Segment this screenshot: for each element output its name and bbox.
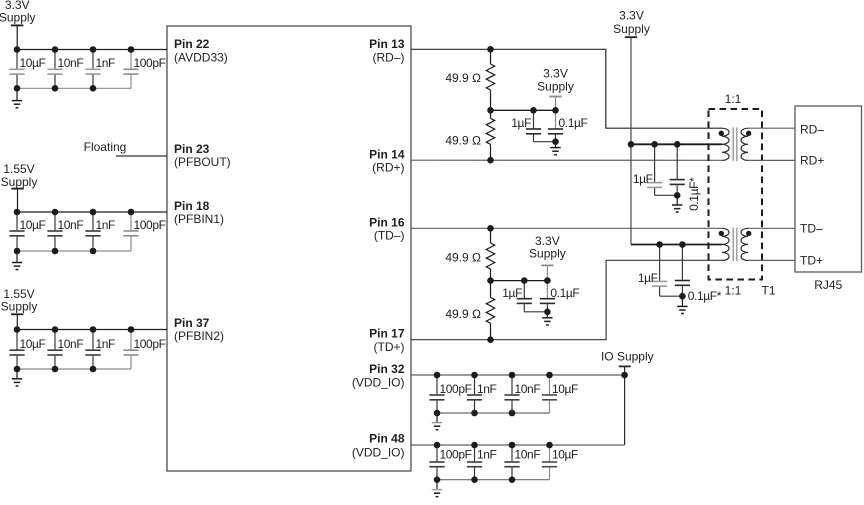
wire 1.55V supply rail to Pin 37	[17, 329, 167, 331]
connector RJ45	[795, 106, 862, 272]
wire Pin 13 (RD-) to transformer primary top	[411, 49, 722, 128]
junction dots on Pin 22 ground bus	[14, 85, 21, 92]
capacitor 100pF (Pin 48 bank)	[436, 445, 438, 461]
IC block U1 (PHY)	[167, 26, 411, 471]
capacitor 100pF (Pin 32 bank)	[436, 375, 438, 394]
svg-text:Pin 14: Pin 14	[369, 147, 405, 161]
capacitor 1nF (Pin 32 bank)	[474, 375, 476, 394]
wire 1.55V ground bus (Pin 18 bank)	[17, 250, 131, 252]
junction node Pin16/R3	[487, 225, 494, 232]
polarity dot RD primary	[719, 131, 724, 136]
svg-text:(RD+): (RD+)	[372, 161, 404, 175]
junction node R2/Pin14	[487, 157, 494, 164]
ground (Pin 22 bank)	[16, 88, 18, 100]
svg-text:100pF: 100pF	[134, 337, 166, 351]
junction node Pin13/R1	[487, 46, 494, 53]
capacitor 1uF (RD center tap)	[654, 144, 656, 182]
svg-text:Pin 13: Pin 13	[369, 37, 405, 51]
junction dots on Pin 48 supply rail	[434, 442, 441, 449]
wire VDD_IO ground bus (Pin 32 bank)	[437, 412, 550, 414]
svg-text:(PFBIN2): (PFBIN2)	[174, 329, 224, 343]
junction dots on Pin 37 ground bus	[14, 366, 21, 373]
resistor R4 49.9 ohm (TD)	[490, 281, 492, 298]
capacitor 1uF (TD center tap)	[659, 245, 661, 281]
svg-text:10µF: 10µF	[20, 218, 46, 232]
svg-text:Pin 17: Pin 17	[369, 326, 405, 340]
svg-text:(VDD_IO): (VDD_IO)	[352, 445, 405, 459]
capacitor 10&#181;F (Pin 18 bank)	[16, 212, 18, 230]
svg-text:IO Supply: IO Supply	[601, 350, 654, 364]
junction dots on Pin 32 ground bus	[434, 410, 441, 417]
wire TD termination center tap	[491, 280, 548, 282]
svg-text:10µF: 10µF	[552, 448, 578, 462]
svg-text:49.9 Ω: 49.9 Ω	[445, 134, 481, 148]
svg-text:RD+: RD+	[800, 154, 824, 168]
svg-text:10nF: 10nF	[515, 382, 541, 396]
ground (Pin 32 bank)	[436, 413, 438, 423]
svg-text:TD+: TD+	[800, 254, 823, 268]
svg-text:1:1: 1:1	[725, 92, 742, 106]
capacitor 100pF (Pin 37 bank)	[130, 330, 132, 350]
capacitor 1nF (Pin 22 bank)	[92, 50, 94, 69]
capacitor 10&#181;F (Pin 22 bank)	[16, 50, 18, 69]
svg-text:0.1µF: 0.1µF	[559, 116, 588, 130]
capacitor 10nF (Pin 22 bank)	[54, 50, 56, 69]
svg-text:3.3V: 3.3V	[619, 9, 644, 23]
wire TD+ secondary to RJ45	[748, 259, 795, 261]
svg-text:100pF: 100pF	[134, 56, 166, 70]
ground (TD center tap)	[681, 296, 683, 306]
transformer RD primary winding	[722, 128, 729, 160]
svg-text:10nF: 10nF	[58, 337, 84, 351]
svg-text:10µF: 10µF	[20, 337, 46, 351]
svg-text:1µF: 1µF	[633, 172, 653, 186]
svg-text:100pF: 100pF	[440, 448, 472, 462]
svg-text:10µF: 10µF	[20, 56, 46, 70]
wire 1.55V supply rail to Pin 18	[17, 211, 167, 213]
capacitor 100pF (Pin 22 bank)	[130, 50, 132, 69]
junction node 3.3V/RD center tap	[628, 141, 635, 148]
ground (Pin 18 bank)	[16, 251, 18, 263]
svg-text:Supply: Supply	[0, 11, 36, 25]
svg-text:Pin 18: Pin 18	[174, 199, 210, 213]
svg-text:1:1: 1:1	[725, 284, 742, 298]
junction dots TD center tap	[656, 241, 663, 248]
capacitor 10nF (Pin 48 bank)	[511, 445, 513, 461]
svg-text:Pin 37: Pin 37	[174, 316, 210, 330]
svg-text:10µF: 10µF	[552, 382, 578, 396]
svg-text:Supply: Supply	[613, 22, 650, 36]
svg-text:1nF: 1nF	[96, 218, 116, 232]
svg-text:1nF: 1nF	[96, 56, 116, 70]
svg-text:Supply: Supply	[529, 247, 566, 261]
svg-text:1µF: 1µF	[638, 271, 658, 285]
svg-text:1nF: 1nF	[96, 337, 116, 351]
wire Pin 32 (VDD_IO) to IO Supply	[411, 374, 625, 376]
junction dots on Pin 48 ground bus	[434, 476, 441, 483]
resistor R2 49.9 ohm (RD)	[490, 110, 492, 118]
svg-text:0.1µF*: 0.1µF*	[688, 289, 722, 303]
transformer RD secondary winding	[741, 128, 748, 160]
svg-text:Pin 22: Pin 22	[174, 37, 210, 51]
wire IO Supply vertical	[624, 366, 626, 445]
junction dots on Pin 32 supply rail	[434, 372, 441, 379]
resistor R1 49.9 ohm (RD)	[490, 49, 492, 64]
capacitor 10&#181;F (Pin 37 bank)	[16, 330, 18, 350]
svg-text:(PFBOUT): (PFBOUT)	[174, 155, 231, 169]
wire Pin 16 (TD-) to transformer primary top	[411, 227, 722, 229]
junction dots on Pin 37 supply rail	[14, 326, 21, 333]
svg-text:RJ45: RJ45	[814, 278, 842, 292]
capacitor 10&#181;F (Pin 32 bank)	[549, 375, 551, 394]
capacitor 0.1uF* (TD center tap)	[681, 245, 683, 280]
svg-text:10nF: 10nF	[515, 448, 541, 462]
ground (TD termination)	[546, 312, 548, 318]
transformer T1 dashed boundary	[709, 109, 763, 280]
capacitor 10nF (Pin 18 bank)	[54, 212, 56, 230]
wire RD center tap	[631, 143, 722, 145]
svg-text:T1: T1	[761, 284, 775, 298]
transformer TD secondary winding	[741, 228, 748, 260]
resistor R3 49.9 ohm (TD)	[490, 228, 492, 243]
svg-text:Pin 48: Pin 48	[369, 432, 405, 446]
transformer TD primary winding	[722, 228, 729, 260]
wire Pin 14 (RD+) to transformer primary bottom	[411, 159, 722, 161]
svg-text:(TD+): (TD+)	[374, 340, 405, 354]
svg-text:Pin 23: Pin 23	[174, 142, 210, 156]
wire Pin 48 (VDD_IO) to IO Supply corner	[411, 444, 625, 446]
svg-text:(PFBIN1): (PFBIN1)	[174, 212, 224, 226]
junction dots on Pin 18 supply rail	[14, 209, 21, 216]
wire 3.3V supply rail to Pin 22	[17, 49, 167, 51]
svg-text:10nF: 10nF	[58, 56, 84, 70]
capacitor 0.1uF (RD termination)	[555, 127, 557, 130]
svg-text:49.9 Ω: 49.9 Ω	[445, 71, 481, 85]
junction node R1/R2 midpoint (RD)	[487, 107, 494, 114]
junction dots TD termination	[521, 277, 528, 284]
wire TD- secondary to RJ45	[748, 227, 795, 229]
capacitor 0.1uF* (RD center tap)	[676, 144, 678, 179]
wire 1.55V ground bus (Pin 37 bank)	[17, 368, 131, 370]
svg-text:49.9 Ω: 49.9 Ω	[445, 250, 481, 264]
svg-text:Supply: Supply	[1, 175, 38, 189]
wire Floating to Pin 23	[116, 155, 167, 157]
svg-text:Pin 16: Pin 16	[369, 215, 405, 229]
svg-text:Floating: Floating	[84, 140, 127, 154]
junction node IO Supply / Pin 32	[621, 372, 628, 379]
junction node R4/Pin17	[487, 336, 494, 343]
svg-text:(AVDD33): (AVDD33)	[174, 50, 228, 64]
junction dots RD center tap	[651, 141, 658, 148]
wire Pin 17 (TD+) to transformer primary bottom	[411, 260, 722, 339]
wire 3.3V ground bus (Pin 22 bank)	[17, 87, 131, 89]
junction dots on Pin 18 ground bus	[14, 248, 21, 255]
svg-text:0.1µF*: 0.1µF*	[687, 177, 701, 211]
polarity dot TD secondary	[746, 231, 751, 236]
wire RD termination center tap	[491, 109, 556, 111]
ground (Pin 37 bank)	[16, 369, 18, 379]
capacitor 1nF (Pin 48 bank)	[474, 445, 476, 461]
capacitor 10nF (Pin 32 bank)	[511, 375, 513, 394]
capacitor 0.1uF (TD termination)	[546, 297, 548, 300]
svg-text:(RD–): (RD–)	[373, 50, 405, 64]
wire RD- secondary to RJ45	[748, 127, 795, 129]
ground (RD center tap)	[676, 195, 678, 205]
junction dots RD termination	[530, 107, 537, 114]
junction dots on Pin 22 supply rail	[14, 46, 21, 53]
svg-text:1nF: 1nF	[477, 448, 497, 462]
svg-text:TD–: TD–	[800, 222, 823, 236]
svg-text:100pF: 100pF	[134, 218, 166, 232]
capacitor 10nF (Pin 37 bank)	[54, 330, 56, 350]
svg-text:10nF: 10nF	[58, 218, 84, 232]
capacitor 1nF (Pin 37 bank)	[92, 330, 94, 350]
svg-text:RD–: RD–	[800, 123, 824, 137]
polarity dot TD primary	[719, 231, 724, 236]
capacitor 1uF (TD termination)	[523, 281, 525, 298]
svg-text:Pin 32: Pin 32	[369, 362, 405, 376]
svg-text:3.3V: 3.3V	[543, 66, 568, 80]
transformer TD core	[732, 228, 734, 262]
ground (RD termination)	[555, 142, 557, 148]
ground (Pin 48 bank)	[436, 480, 438, 490]
capacitor 1uF (RD termination)	[533, 110, 535, 128]
junction node R3/R4 midpoint (TD)	[487, 277, 494, 284]
wire TD center tap	[631, 244, 722, 246]
polarity dot RD secondary	[746, 131, 751, 136]
svg-text:Supply: Supply	[1, 300, 38, 314]
wire RD+ secondary to RJ45	[748, 159, 795, 161]
svg-text:1µF: 1µF	[511, 116, 531, 130]
capacitor 100pF (Pin 18 bank)	[130, 212, 132, 230]
svg-text:(VDD_IO): (VDD_IO)	[352, 375, 405, 389]
svg-text:Supply: Supply	[537, 80, 574, 94]
svg-text:100pF: 100pF	[440, 382, 472, 396]
svg-text:0.1µF: 0.1µF	[550, 286, 579, 300]
capacitor 10&#181;F (Pin 48 bank)	[549, 445, 551, 461]
transformer RD core	[732, 128, 734, 162]
svg-text:1nF: 1nF	[477, 382, 497, 396]
svg-text:49.9 Ω: 49.9 Ω	[445, 307, 481, 321]
capacitor 1nF (Pin 18 bank)	[92, 212, 94, 230]
svg-text:1µF: 1µF	[502, 286, 522, 300]
wire VDD_IO ground bus (Pin 48 bank)	[437, 479, 550, 481]
svg-text:(TD–): (TD–)	[374, 229, 405, 243]
